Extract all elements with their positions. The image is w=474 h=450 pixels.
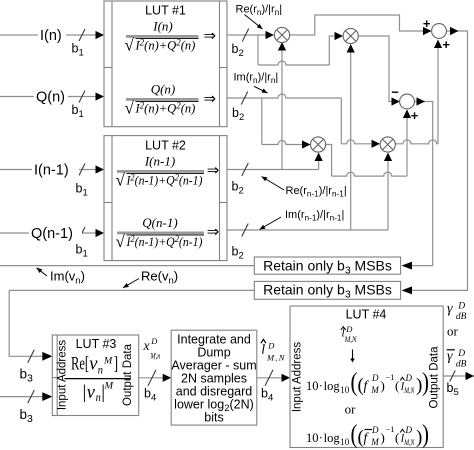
svg-text:D: D [371,425,379,435]
svg-text:): ) [422,419,429,448]
svg-text:v: v [87,383,96,403]
svg-text:I2(n-1)+Q2(n-1): I2(n-1)+Q2(n-1) [126,173,203,188]
svg-text:⇒: ⇒ [204,29,217,45]
svg-text:LUT #3: LUT #3 [76,337,117,351]
svg-text:−1: −1 [386,372,395,382]
svg-text:10: 10 [340,385,350,395]
svg-text:n: n [98,363,103,377]
svg-text:Q(n): Q(n) [36,90,65,106]
svg-text:log: log [324,431,341,445]
svg-text:10: 10 [340,437,350,447]
svg-text:I(n): I(n) [152,19,173,34]
svg-text:M: M [103,357,113,367]
svg-text:dB: dB [456,360,467,370]
svg-text:I(n-1): I(n-1) [34,163,69,179]
svg-text:√: √ [125,99,135,118]
svg-text:Dump: Dump [197,346,230,360]
svg-text:+: + [411,108,419,123]
svg-text:·: · [319,431,323,445]
svg-text:Q(n): Q(n) [151,82,176,97]
svg-text:D: D [267,341,275,351]
svg-text:D: D [457,349,465,359]
svg-text:γ: γ [447,302,453,317]
svg-text:dB: dB [456,312,467,322]
svg-text:M,N: M,N [404,437,416,447]
svg-text:M,N: M,N [266,353,286,363]
svg-text:I2(n)+Q2(n): I2(n)+Q2(n) [135,101,196,116]
svg-text:|: | [83,382,87,403]
svg-text:Input Address: Input Address [292,342,304,413]
svg-text:I2(n)+Q2(n): I2(n)+Q2(n) [135,38,196,53]
svg-text:M,n: M,n [150,351,161,361]
svg-text:D: D [150,336,158,346]
svg-text:Integrate and: Integrate and [177,333,251,347]
svg-text:⇒: ⇒ [204,92,217,108]
svg-text:M,N: M,N [344,335,357,344]
svg-text:and disregard: and disregard [176,385,252,399]
svg-text:2N samples: 2N samples [181,372,247,386]
svg-text:√: √ [125,36,135,55]
svg-text:): ) [422,367,429,396]
svg-text:Q(n-1): Q(n-1) [142,215,177,230]
svg-text:I2(n-1)+Q2(n-1): I2(n-1)+Q2(n-1) [126,234,203,249]
svg-text:): ) [381,378,385,393]
svg-text:Averager - sum: Averager - sum [171,359,256,373]
svg-text:LUT #1: LUT #1 [145,4,186,18]
svg-text:D: D [345,324,353,334]
svg-text:Input Address: Input Address [57,340,69,411]
svg-text:): ) [381,430,385,445]
svg-text:I(n): I(n) [40,28,62,44]
svg-text:Re[: Re[ [71,355,89,375]
svg-text:or: or [345,402,357,417]
svg-text:I(n-1): I(n-1) [144,154,175,169]
svg-text:10: 10 [306,431,319,445]
svg-text:M,N: M,N [404,385,416,395]
svg-text:M: M [370,385,379,395]
svg-text:n: n [96,390,101,404]
svg-text:(: ( [395,378,399,393]
svg-text:√: √ [116,171,126,190]
svg-text:+: + [423,16,431,31]
svg-text:D: D [457,302,465,312]
svg-text:10: 10 [306,379,319,393]
svg-text:Output Data: Output Data [122,343,134,406]
svg-text:M: M [103,382,114,392]
svg-text:D: D [371,373,379,383]
svg-text:Q(n-1): Q(n-1) [31,226,73,242]
svg-text:D: D [405,373,413,383]
svg-text:⇒: ⇒ [207,163,220,179]
svg-text:x: x [143,338,150,353]
svg-text:−1: −1 [386,424,395,434]
svg-text:⇒: ⇒ [207,225,220,241]
svg-text:(: ( [351,367,358,396]
svg-text:M: M [370,437,379,447]
svg-text:D: D [405,425,413,435]
svg-text:LUT #2: LUT #2 [145,139,186,153]
svg-text:−: − [391,85,399,100]
svg-text:γ: γ [447,349,453,364]
svg-text:(: ( [395,430,399,445]
svg-text:or: or [447,324,459,339]
svg-text:log: log [324,379,341,393]
svg-text:LUT #4: LUT #4 [346,308,387,322]
svg-text:(: ( [351,419,358,448]
svg-text:+: + [442,37,450,52]
svg-text:Output Data: Output Data [429,346,441,409]
svg-text:l: l [261,343,265,358]
svg-text:·: · [319,379,323,393]
svg-text:√: √ [116,232,126,251]
svg-text:bits: bits [204,411,223,425]
svg-text:]: ] [114,355,119,375]
